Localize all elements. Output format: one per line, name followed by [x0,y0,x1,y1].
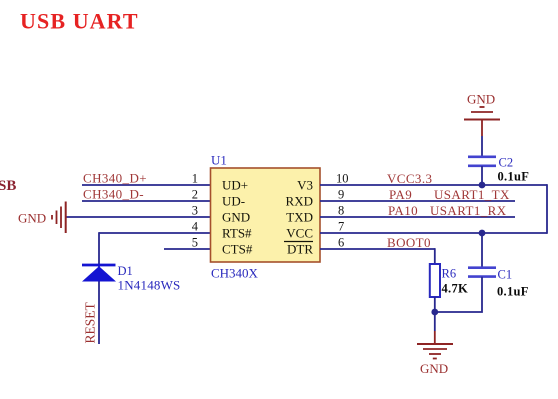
svg-text:USB UART: USB UART [20,9,139,34]
wire junction down to GND [434,312,436,331]
wire pin10 VCC3.3 [320,184,547,186]
wire pin7 rail down to C1 [481,233,483,267]
pin number 5 [192,236,198,250]
pin name TXD [286,210,313,225]
svg-text:7: 7 [338,220,344,234]
svg-text:RTS#: RTS# [222,226,252,241]
svg-text:CH340_D-: CH340_D- [83,187,144,202]
pin number 10 [336,172,349,186]
ground (top right) [464,92,500,137]
svg-text:GND: GND [18,211,46,226]
resistor R6 [430,264,468,297]
svg-text:USART1_TX: USART1_TX [434,187,510,202]
pin number 3 [192,204,198,218]
svg-text:CTS#: CTS# [222,242,253,257]
svg-text:GND: GND [420,361,448,376]
svg-text:BOOT0: BOOT0 [387,235,431,250]
pin number 6 [338,236,344,250]
pin name CTS# [222,242,253,257]
wire R6 bottom to junction [434,297,436,312]
pin name UD- [222,194,245,209]
node USART1_RX [430,203,507,218]
pin name GND [222,210,250,225]
pin number 1 [192,172,198,186]
wire GND to C2 [481,136,483,156]
svg-text:GND: GND [222,210,250,225]
svg-text:V3: V3 [297,178,313,193]
pin number 9 [338,188,344,202]
svg-text:R6: R6 [442,267,457,281]
wire pin5 (CTS#) stub [164,248,211,250]
svg-text:U1: U1 [211,153,227,168]
svg-text:0.1uF: 0.1uF [497,285,529,299]
op-amp U1 chip body CH340X [211,153,321,281]
svg-text:C1: C1 [498,268,513,282]
svg-text:CH340_D+: CH340_D+ [83,171,147,186]
wire RTS# vertical down to RESET [98,232,100,344]
svg-text:UD+: UD+ [222,178,248,193]
node CH340_D- [83,187,144,202]
wire pin7 VCC [320,232,547,234]
svg-text:1N4148WS: 1N4148WS [118,278,181,293]
svg-text:USART1_RX: USART1_RX [430,203,507,218]
ground (left, sideways bars) [18,202,66,234]
node junction C1/VCC rail [479,230,486,237]
svg-text:RXD: RXD [286,194,313,209]
svg-text:PA9: PA9 [389,187,412,202]
node CH340_D+ [83,171,147,186]
wire right vertical (pin10 to pin7) [546,184,548,234]
svg-text:1: 1 [192,172,198,186]
svg-text:C2: C2 [499,156,514,170]
capacitor C2 [468,156,529,184]
node junction R6/C1 [431,309,438,316]
node USART1_TX [434,187,510,202]
ground (bottom right) [417,331,453,376]
wire pin9 USART1_TX [320,200,515,202]
svg-text:RESET: RESET [83,301,98,343]
node BOOT0 [387,235,431,250]
svg-text:6: 6 [338,236,344,250]
title USB UART [20,9,139,34]
svg-text:8: 8 [338,204,344,218]
svg-text:CH340X: CH340X [211,266,259,281]
svg-text:4: 4 [192,220,199,234]
capacitor C1 [468,268,529,299]
pin name RXD [286,194,313,209]
wire pin6 BOOT0 [320,248,435,250]
node PA9 [389,187,412,202]
pin number 7 [338,220,344,234]
svg-text:9: 9 [338,188,344,202]
node USB (clipped label at left edge) [0,178,16,194]
pin number 2 [192,188,198,202]
svg-text:D1: D1 [118,264,133,278]
node PA10 [388,203,418,218]
pin name RTS# [222,226,252,241]
diode D1 [82,264,181,293]
svg-text:VCC: VCC [286,226,313,241]
svg-text:TXD: TXD [286,210,313,225]
pin number 8 [338,204,344,218]
wire pin2 (CH340_D-) [82,200,211,202]
svg-text:SB: SB [0,178,16,194]
wire pin8 USART1_RX [320,216,515,218]
wire BOOT0 down to R6 [434,248,436,264]
wire pin4 (RTS#) horizontal [99,232,211,234]
node VCC3.3 [387,171,432,186]
svg-text:3: 3 [192,204,198,218]
pin number 4 [192,220,199,234]
pin name UD+ [222,178,248,193]
svg-text:VCC3.3: VCC3.3 [387,171,432,186]
wire pin3 (GND) [66,216,211,218]
wire C2 to VCC3.3 rail [481,166,483,185]
wire C1 bottom to junction [435,277,482,312]
svg-text:0.1uF: 0.1uF [498,170,530,184]
svg-text:PA10: PA10 [388,203,418,218]
pin name DTR (with overline) [284,242,313,257]
wire pin1 (CH340_D+) [82,184,211,186]
node junction C2/VCC3.3 [479,182,486,189]
svg-text:4.7K: 4.7K [442,282,469,296]
svg-text:DTR: DTR [287,242,313,257]
pin name VCC [286,226,313,241]
svg-text:2: 2 [192,188,198,202]
node RESET (rotated label) [83,301,98,343]
pin name V3 [297,178,313,193]
svg-text:UD-: UD- [222,194,245,209]
svg-text:5: 5 [192,236,198,250]
svg-text:10: 10 [336,172,349,186]
svg-text:GND: GND [467,92,495,107]
